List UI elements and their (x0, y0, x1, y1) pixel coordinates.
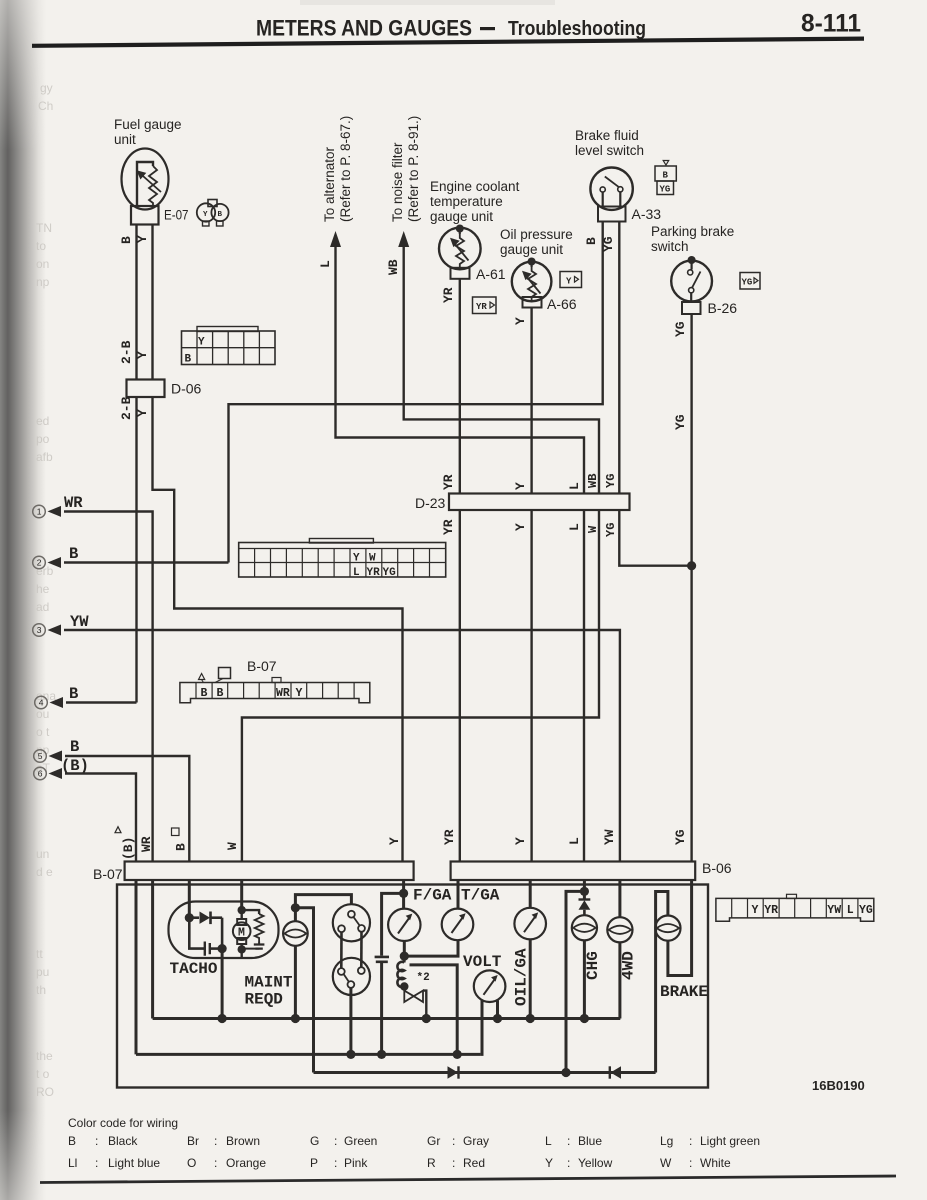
labels above D-23 (rotated): YR Y L WB YG (441, 474, 618, 490)
wire T/GA from B-06 down (457, 880, 460, 909)
svg-text:WB: WB (586, 474, 600, 488)
svg-text:B: B (218, 211, 223, 219)
junction dot YG (687, 561, 696, 570)
labels above B-06 bar (rotated): YR Y L YW (442, 829, 617, 845)
4WD lamp (607, 917, 632, 942)
svg-text:tt: tt (36, 947, 43, 961)
engine coolant temperature gauge unit A-61 (439, 225, 481, 270)
caption Fuel gauge unit (114, 117, 182, 147)
connector grid (13x2 cells) mid page (239, 539, 446, 580)
svg-text:D-06: D-06 (171, 381, 202, 397)
wire YG from A-33 down to D-23 (618, 222, 620, 494)
connector A-33 box (598, 207, 626, 222)
svg-text:YG: YG (742, 278, 753, 288)
svg-text:Y: Y (513, 482, 528, 490)
connector D-23 bar (449, 494, 630, 511)
svg-text:he: he (36, 582, 50, 596)
circled terminal 4 (35, 696, 48, 709)
wire F/GA from B-07 down (402, 880, 405, 909)
svg-text:A-66: A-66 (547, 296, 577, 312)
header title (256, 16, 646, 41)
svg-text:OIL/GA: OIL/GA (513, 948, 531, 1006)
legend: color code for wiring (68, 1116, 760, 1170)
svg-text:Yellow: Yellow (578, 1156, 613, 1170)
svg-text:L: L (353, 567, 360, 579)
wire YR from A-61 down to D-23 (459, 279, 461, 494)
TACHO input junction (185, 913, 194, 922)
svg-text:gauge unit: gauge unit (430, 209, 493, 224)
svg-text::: : (452, 1156, 455, 1170)
connector A-61 box (451, 268, 470, 279)
wire B from B-07 into TACHO (188, 880, 191, 918)
junction dot rail B / link (453, 1050, 462, 1059)
svg-text:MAINT: MAINT (245, 974, 293, 992)
svg-text:O: O (187, 1156, 196, 1170)
svg-text:on: on (36, 257, 49, 271)
wire OIL/GA down to rail A (529, 939, 532, 1018)
circled terminal 3 (33, 624, 46, 637)
svg-text:to: to (36, 239, 46, 253)
svg-text:Red: Red (463, 1156, 485, 1170)
svg-text:YG: YG (601, 236, 616, 252)
svg-text:VOLT: VOLT (463, 953, 502, 971)
svg-text:YW: YW (827, 904, 841, 917)
svg-text:L: L (318, 260, 333, 268)
bleed-through ghost text left margin (36, 81, 56, 1099)
svg-text:P: P (310, 1156, 318, 1170)
svg-text:B: B (217, 687, 224, 700)
svg-text:(Refer to P. 8-67.): (Refer to P. 8-67.) (338, 116, 353, 222)
combination meter box outline (117, 885, 708, 1088)
wire 4WD down to rail A end (618, 942, 621, 1018)
svg-text:Fuel gauge: Fuel gauge (114, 117, 182, 132)
svg-text:Blue: Blue (578, 1134, 602, 1148)
wire L from alternator arrow down and over to D-23 (336, 244, 585, 494)
svg-text:the: the (36, 1049, 53, 1063)
wire B from arrow 4 to fuel 2-B wire (66, 701, 137, 703)
svg-text:Color code for wiring: Color code for wiring (68, 1116, 178, 1130)
wire (B) from arrow 6 right then down to B-07 (65, 774, 136, 862)
TACHO diode branch wire (221, 918, 224, 949)
wire Y from D-23 down to B-06 (530, 510, 532, 862)
wire YG from D-23 right to parking brake YG line (619, 510, 691, 566)
junction dot rail C / branch (561, 1068, 570, 1077)
label MAINT REQD (245, 974, 293, 1009)
svg-text:switch: switch (651, 239, 689, 254)
wire Y from E-07 down to D-06 (151, 225, 153, 381)
svg-text:To noise filter: To noise filter (390, 142, 405, 222)
svg-text:2-B: 2-B (119, 396, 134, 420)
svg-text:W: W (225, 842, 240, 850)
svg-text:B: B (185, 354, 192, 366)
svg-text:B: B (174, 843, 189, 851)
svg-text:YR: YR (764, 904, 778, 917)
svg-text:np: np (36, 275, 50, 289)
circled terminal 6 (34, 767, 47, 780)
wire VOLT left terminal to rail B (480, 1000, 482, 1054)
callout box Y pin (560, 272, 582, 288)
circled terminal 2 (33, 556, 46, 569)
svg-text:G: G (310, 1134, 319, 1148)
svg-text:YG: YG (604, 474, 618, 488)
parking brake switch B-26 (671, 256, 712, 302)
wire MAINT branch to rail C (295, 908, 313, 1073)
svg-text:METERS AND GAUGES: METERS AND GAUGES (256, 16, 472, 41)
arrow 3 (48, 625, 62, 636)
wire 4WD from B-06 down (618, 880, 621, 917)
svg-text:1: 1 (37, 507, 42, 517)
svg-text:TN: TN (36, 221, 52, 235)
oil pressure gauge unit A-66 (512, 258, 552, 302)
junction dot rail A / MAINT (291, 1014, 300, 1023)
svg-text:F/GA: F/GA (413, 887, 452, 905)
wire WR from arrow 1 right then down to B-07 (64, 512, 153, 862)
arrow 4 (50, 697, 64, 708)
svg-text:un: un (36, 847, 49, 861)
svg-text:B: B (584, 237, 599, 245)
svg-text:YR: YR (441, 519, 456, 535)
svg-text:Oil pressure: Oil pressure (500, 227, 573, 242)
svg-text:4: 4 (39, 698, 44, 708)
svg-text:L: L (567, 837, 582, 845)
caption Brake fluid level switch (575, 128, 644, 158)
svg-text:Ll: Ll (68, 1156, 77, 1170)
svg-text::: : (95, 1156, 98, 1170)
TACHO internal capacitor under resistor (242, 942, 265, 949)
caption Parking brake switch (651, 224, 734, 254)
svg-text:unit: unit (114, 132, 136, 147)
svg-text:Parking brake: Parking brake (651, 224, 734, 239)
svg-text:YG: YG (604, 523, 618, 537)
svg-text:WB: WB (386, 259, 401, 275)
rail B (horizontal) (136, 1053, 480, 1056)
arrow 6 (49, 768, 63, 779)
callout boxes B / YG with triangle (655, 161, 676, 195)
wire YG from B-26 down to B-06 (690, 314, 692, 862)
junction dot rail A / TACHO (218, 1014, 227, 1023)
TACHO motor M (233, 906, 251, 958)
wire B from arrow 5 right then down to B-07 (65, 756, 189, 862)
svg-text:B: B (69, 545, 78, 563)
connector B-07 bar (125, 862, 414, 881)
F/GA gauge (388, 909, 420, 941)
wire MAINT lamp down to rail A (294, 946, 297, 1019)
svg-text:o t: o t (36, 725, 50, 739)
svg-text:2-B: 2-B (119, 340, 134, 364)
svg-text:REQD: REQD (245, 991, 283, 1009)
wire link F/GA to T/GA bottom (404, 940, 458, 956)
connector D-06 detail grid (182, 327, 276, 366)
svg-text:B-07: B-07 (247, 658, 277, 674)
svg-text::: : (95, 1134, 98, 1148)
svg-text:Orange: Orange (226, 1156, 266, 1170)
svg-text:B: B (70, 738, 79, 756)
wire BRAKE loop from YG line (668, 880, 692, 976)
svg-text::: : (334, 1134, 337, 1148)
svg-text:Pink: Pink (344, 1156, 368, 1170)
junction dot rail A / zener (422, 1014, 431, 1023)
svg-text:CHG: CHG (584, 951, 602, 980)
svg-text:YG: YG (383, 567, 397, 579)
junction dot F/GA bottom (400, 952, 409, 961)
wire BRAKE lamp top to rail C (656, 892, 668, 1073)
svg-text:W: W (369, 553, 376, 565)
svg-text:ad: ad (36, 600, 49, 614)
svg-text:Br: Br (187, 1134, 199, 1148)
svg-text:WR: WR (139, 836, 154, 852)
wire CHG node branch down to rail C (566, 891, 584, 1072)
svg-text:Y: Y (135, 235, 150, 243)
svg-text:YW: YW (70, 613, 89, 631)
zener bowtie D3 (404, 991, 426, 1019)
svg-text:(Refer to P. 8-91.): (Refer to P. 8-91.) (406, 116, 421, 222)
svg-text:3: 3 (37, 625, 42, 635)
svg-text:YR: YR (476, 302, 487, 312)
coil L1 below F/GA (397, 956, 408, 991)
svg-text::: : (334, 1156, 337, 1170)
svg-text:Engine coolant: Engine coolant (430, 179, 520, 194)
svg-text:gauge unit: gauge unit (500, 242, 563, 257)
svg-text:Y: Y (513, 837, 528, 845)
svg-text:ed: ed (36, 414, 49, 428)
svg-text:Troubleshooting: Troubleshooting (508, 18, 646, 40)
svg-text:A-33: A-33 (632, 206, 662, 222)
left scan gutter band (0, 0, 46, 1200)
OIL/GA gauge (514, 908, 546, 940)
svg-text:L: L (567, 523, 582, 531)
svg-text::: : (214, 1156, 217, 1170)
TACHO output junction (218, 944, 227, 953)
wire S1 left to S2 left (340, 932, 343, 968)
TACHO internal resistor (242, 910, 264, 941)
wire YW from arrow 3 right then down to B-06 (64, 630, 620, 862)
junction dot rail A / OIL-GA (526, 1014, 535, 1023)
svg-text:Y: Y (752, 904, 759, 917)
connector E-07 mating face (Y and B terminals) (197, 200, 229, 227)
svg-text:Green: Green (344, 1134, 377, 1148)
svg-text:YW: YW (602, 829, 617, 845)
wire capacitor branch from F/GA node (382, 893, 404, 955)
svg-text:YG: YG (660, 185, 671, 195)
svg-text:*2: *2 (417, 972, 430, 984)
svg-text:B: B (663, 171, 669, 181)
wire S2 bottom down to rail B (349, 988, 352, 1055)
svg-text::: : (567, 1156, 570, 1170)
svg-text:pu: pu (36, 965, 49, 979)
svg-text:Brown: Brown (226, 1134, 260, 1148)
svg-text:Y: Y (198, 337, 205, 349)
switch S2 (lower contact set) (333, 958, 370, 995)
junction dot F/GA top (399, 889, 408, 898)
svg-text:YG: YG (673, 321, 688, 337)
svg-text:(B): (B) (121, 837, 136, 860)
svg-text:Y: Y (387, 837, 402, 845)
connector D-06 box (127, 380, 165, 398)
svg-text:2: 2 (37, 558, 42, 568)
wire B from A-33 over to arrow 2 (229, 222, 603, 563)
svg-text:level switch: level switch (575, 143, 644, 158)
wire S1 right to S2 right (360, 932, 363, 967)
junction dot rail B / capacitor (377, 1050, 386, 1059)
svg-text:WR: WR (276, 687, 290, 700)
diode D5 on rail C (pointing left) (610, 1066, 621, 1078)
svg-text:YR: YR (441, 287, 456, 303)
svg-text::: : (689, 1134, 692, 1148)
svg-text:Y: Y (203, 211, 208, 219)
svg-text:B: B (68, 1134, 76, 1148)
svg-text:th: th (36, 983, 46, 997)
svg-text:8-111: 8-111 (801, 10, 861, 38)
caption To alternator (rotated) (322, 116, 353, 222)
svg-text:Light blue: Light blue (108, 1156, 160, 1170)
svg-text:Gr: Gr (427, 1134, 440, 1148)
diode D1 above CHG lamp (579, 900, 591, 916)
svg-text:B-07: B-07 (93, 866, 123, 882)
svg-text:YG: YG (673, 829, 688, 845)
fuel gauge variable resistor (137, 166, 162, 207)
circled terminal 1 (33, 505, 46, 518)
svg-text::: : (689, 1156, 692, 1170)
TACHO body (stadium outline) (169, 902, 279, 959)
svg-text:gy: gy (40, 81, 53, 95)
svg-text:L: L (567, 482, 582, 490)
wire VOLT right terminal to rail A (496, 1001, 499, 1019)
svg-text:YR: YR (442, 829, 457, 845)
svg-text:Y: Y (296, 687, 303, 700)
svg-text:T/GA: T/GA (461, 887, 500, 905)
fuel gauge internal wiring (137, 162, 153, 207)
wire 2-B from D-06 down to arrow 4 (135, 397, 137, 703)
svg-text:6: 6 (38, 769, 43, 779)
junction dot rail B / S2 (346, 1050, 355, 1059)
wire Y from D-06 jog down to B-07 (153, 397, 403, 862)
svg-text:WR: WR (64, 494, 83, 512)
wire W from D-23 down then left to B-07 (242, 510, 599, 862)
junction dot rail A / CHG (580, 1014, 589, 1023)
svg-text:Y: Y (566, 277, 572, 287)
svg-text:YR: YR (367, 567, 381, 579)
svg-text:Gray: Gray (463, 1134, 489, 1148)
VOLT gauge (474, 970, 506, 1002)
switch S1 (upper contact set) (333, 904, 370, 941)
caption To noise filter (rotated) (390, 116, 421, 222)
connector E-07 box (131, 206, 159, 225)
svg-text:Light green: Light green (700, 1134, 760, 1148)
svg-text:temperature: temperature (430, 194, 503, 209)
svg-text::: : (452, 1134, 455, 1148)
svg-text:D-23: D-23 (415, 495, 446, 511)
svg-text::: : (567, 1134, 570, 1148)
wire MAINT node (295, 895, 351, 922)
svg-text:Y: Y (545, 1156, 553, 1170)
capacitor C1 (375, 957, 389, 1055)
diode D4 on rail C (pointing right) (448, 1066, 459, 1078)
wire WR inside meter from B-07 to rail A (151, 880, 154, 1019)
header rule (32, 39, 864, 46)
svg-text:To alternator: To alternator (322, 146, 337, 222)
labels above B-07 bar (rotated): (B) WR B W (115, 827, 402, 860)
arrow 2 (48, 557, 62, 568)
svg-text:L: L (847, 904, 854, 917)
fuel gauge unit body (ellipse) (122, 149, 169, 210)
svg-text:t o: t o (36, 1067, 50, 1081)
svg-text::: : (214, 1134, 217, 1148)
svg-text:L: L (545, 1134, 552, 1148)
svg-text:Black: Black (108, 1134, 138, 1148)
TACHO capacitor (189, 918, 222, 956)
svg-text:YR: YR (441, 474, 456, 490)
bottom rule (40, 1176, 896, 1183)
svg-text:RO: RO (36, 1085, 54, 1099)
callout box YG pin (740, 273, 760, 290)
wire (B) inside meter from B-07 to rail B (135, 880, 138, 1054)
svg-text:Y: Y (353, 553, 360, 565)
junction dot MAINT top (291, 903, 300, 912)
svg-text:YG: YG (859, 904, 873, 917)
T/GA gauge (442, 909, 474, 941)
connector B-06 bar (451, 862, 696, 881)
wire CHG from B-06 down (583, 880, 586, 899)
caption Oil pressure gauge unit (500, 227, 573, 257)
svg-text:B: B (69, 685, 78, 703)
wire OIL/GA from B-06 down (529, 880, 532, 908)
CHG lamp (572, 915, 597, 940)
connector A-66 box (523, 297, 542, 308)
wire Y from A-66 down to D-23 (530, 308, 532, 494)
svg-text:B: B (201, 687, 208, 700)
wire L from D-23 down to B-06 (583, 510, 585, 862)
wire B from E-07 down to D-06 (135, 225, 137, 381)
svg-text:Y: Y (135, 351, 150, 359)
arrow 5 (49, 751, 63, 762)
svg-text:Lg: Lg (660, 1134, 673, 1148)
svg-text:E-07: E-07 (164, 207, 189, 223)
connector B-26 box (682, 302, 701, 314)
junction dot rail A / VOLT (493, 1014, 502, 1023)
svg-text:16B0190: 16B0190 (812, 1078, 865, 1093)
svg-text:BRAKE: BRAKE (660, 983, 708, 1001)
caption Engine coolant temperature gauge unit (430, 179, 520, 224)
svg-text:YG: YG (673, 414, 688, 430)
svg-text:po: po (36, 432, 50, 446)
TACHO diode (189, 912, 222, 925)
connector B-07 detail strip (180, 658, 370, 703)
wire W from B-07 into TACHO motor (240, 880, 243, 910)
wire F/GA-T/GA link down to rail B (410, 965, 458, 1055)
circled terminal 5 (34, 750, 47, 763)
wire YR from D-23 down to B-06 (459, 510, 461, 862)
rail C (horizontal) (314, 1071, 656, 1074)
svg-text:White: White (700, 1156, 731, 1170)
wire CHG down to rail A (583, 940, 586, 1018)
svg-text:4WD: 4WD (620, 951, 638, 980)
svg-text:TACHO: TACHO (170, 960, 218, 978)
svg-text:Y: Y (513, 523, 528, 531)
wire B from arrow 2 to corner (joins A-33 B wire) (64, 561, 229, 563)
wire TACHO output down to rail A (221, 949, 224, 1019)
svg-text:Brake fluid: Brake fluid (575, 128, 639, 143)
svg-text:d e: d e (36, 865, 53, 879)
BRAKE lamp (655, 916, 680, 941)
svg-text:A-61: A-61 (476, 266, 506, 282)
svg-text:B: B (119, 236, 134, 244)
labels below D-23 (rotated): YR Y L W YG (441, 519, 618, 537)
svg-text:Ch: Ch (38, 99, 53, 113)
connector B-06 detail strip right (716, 894, 874, 921)
wire WB from noise filter arrow down and over to D-23 (404, 244, 599, 494)
arrow 1 (48, 506, 62, 517)
svg-text:W: W (660, 1156, 672, 1170)
